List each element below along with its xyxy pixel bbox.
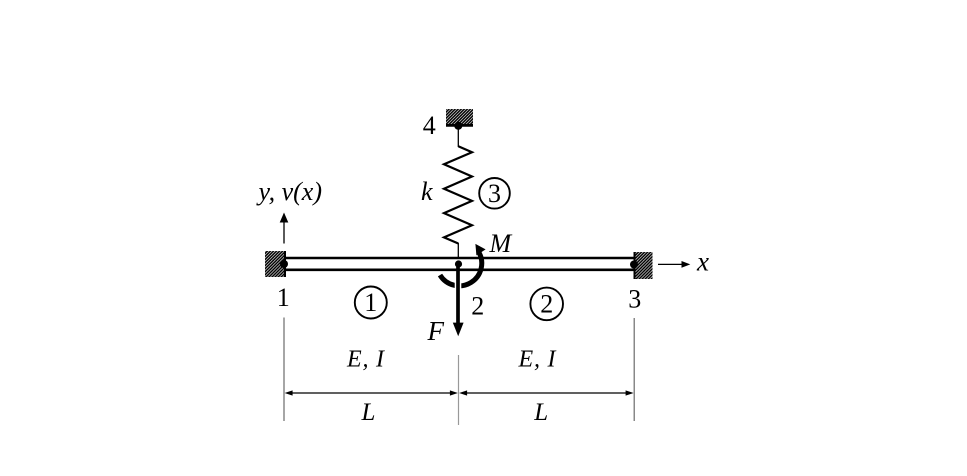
node 2 dot	[455, 260, 462, 267]
node 1 dot	[280, 260, 288, 268]
element circle 2	[530, 288, 563, 321]
svg-text:2: 2	[540, 290, 553, 319]
moment arrow M at node 2	[440, 244, 486, 286]
right fixed support wall (node 3)	[635, 252, 653, 279]
dimension line right span L	[459, 390, 633, 395]
svg-text:3: 3	[488, 179, 501, 208]
svg-text:4: 4	[423, 111, 436, 140]
node 3 dot	[630, 261, 638, 269]
force arrow F at node 2 (with white casing over moment arc)	[453, 266, 464, 336]
svg-text:F: F	[427, 316, 445, 346]
svg-text:L: L	[533, 399, 548, 426]
svg-text:E, I: E, I	[346, 347, 385, 373]
element circle 3	[479, 178, 510, 209]
y axis arrow	[280, 213, 289, 244]
svg-text:L: L	[361, 399, 376, 426]
svg-text:M: M	[489, 229, 513, 258]
beam top chord (elements 1 and 2)	[285, 257, 635, 260]
left fixed support wall (node 1)	[265, 251, 285, 277]
svg-text:1: 1	[364, 288, 377, 317]
extension line node 1	[283, 318, 285, 422]
beam bottom chord	[285, 268, 635, 271]
svg-text:3: 3	[628, 284, 641, 313]
svg-text:x: x	[696, 247, 709, 277]
dimension line left span L	[285, 390, 458, 395]
extension line node 3	[633, 318, 635, 421]
svg-text:1: 1	[277, 283, 290, 312]
svg-text:E, I: E, I	[518, 347, 557, 373]
x axis arrow	[658, 261, 690, 268]
element circle 1	[355, 287, 387, 319]
extension line node 2	[458, 355, 460, 425]
svg-text:y, v(x): y, v(x)	[256, 177, 323, 206]
spring k (element 3) between node 2 and node 4	[457, 126, 459, 147]
node 4 dot	[454, 122, 462, 130]
top fixed support wall (node 4)	[446, 109, 473, 125]
svg-text:2: 2	[471, 292, 484, 321]
svg-text:k: k	[421, 177, 433, 206]
